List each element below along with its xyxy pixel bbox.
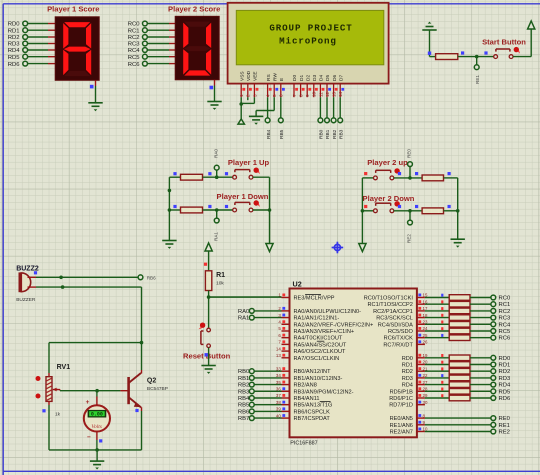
svg-text:RD3: RD3 [402,376,413,382]
svg-text:RC4: RC4 [128,48,141,54]
svg-text:RE2/AN7: RE2/AN7 [390,430,413,436]
svg-text:RC0/T1OSO/T1CKI: RC0/T1OSO/T1CKI [364,296,414,302]
svg-text:RD0: RD0 [499,356,512,362]
svg-text:RD5: RD5 [8,55,21,61]
svg-text:Player 2 up: Player 2 up [367,158,408,167]
svg-text:RD5/P1B: RD5/P1B [390,389,414,395]
svg-text:RE1: RE1 [475,75,480,84]
svg-text:Volts: Volts [91,424,101,430]
svg-text:BC547BP: BC547BP [147,386,168,392]
svg-text:RC3: RC3 [128,42,141,48]
svg-text:RD6: RD6 [499,396,512,402]
svg-text:RE0: RE0 [499,416,511,422]
svg-text:RA6/OSC2/CLKOUT: RA6/OSC2/CLKOUT [294,349,346,355]
svg-text:RB0: RB0 [238,369,250,375]
svg-text:RE0: RE0 [407,149,412,158]
svg-text:RC1/T1OSI/CCP2: RC1/T1OSI/CCP2 [368,302,413,308]
svg-text:D6: D6 [332,75,338,81]
svg-text:RB7/ICSPDAT: RB7/ICSPDAT [294,416,331,422]
svg-text:RC2: RC2 [499,309,511,315]
svg-text:RB6: RB6 [238,409,250,415]
svg-text:RA0/AN0/ULPWU/C12IN0-: RA0/AN0/ULPWU/C12IN0- [294,309,362,315]
svg-text:RC4: RC4 [499,322,512,328]
svg-text:RC6/TX/CK: RC6/TX/CK [384,336,413,342]
svg-text:2: 2 [246,94,251,97]
svg-text:14: 14 [338,91,343,97]
svg-text:Q2: Q2 [147,378,156,385]
svg-text:Start Button: Start Button [482,38,526,47]
svg-text:RB4: RB4 [238,396,250,402]
svg-text:RA0: RA0 [238,309,250,315]
svg-text:VSS: VSS [239,71,245,81]
svg-text:RB4/AN11: RB4/AN11 [294,396,320,402]
svg-text:RD4: RD4 [402,383,413,389]
svg-text:RE1: RE1 [499,423,510,429]
svg-text:D3: D3 [312,75,318,81]
svg-text:RD4: RD4 [499,383,512,389]
svg-text:RB0/AN12/INT: RB0/AN12/INT [294,369,332,375]
svg-text:RC6: RC6 [128,62,141,68]
svg-text:RD1: RD1 [402,363,413,369]
svg-text:RB6: RB6 [147,276,156,281]
svg-text:RD2: RD2 [402,369,413,375]
svg-text:RB2: RB2 [332,129,338,139]
svg-text:RC6: RC6 [499,336,512,342]
svg-text:RC0: RC0 [128,22,141,28]
svg-text:R1: R1 [216,272,225,279]
svg-text:RB5: RB5 [279,129,285,139]
svg-text:RA2/AN2/VREF-/CVREF/C2IN+: RA2/AN2/VREF-/CVREF/C2IN+ [294,322,374,328]
svg-text:D4: D4 [319,75,325,81]
svg-text:RE0/AN5: RE0/AN5 [390,416,413,422]
svg-text:VEE: VEE [253,71,259,81]
svg-text:RC3: RC3 [499,316,512,322]
svg-text:RB3/AN9/PGM/C12IN2-: RB3/AN9/PGM/C12IN2- [294,389,354,395]
svg-text:RC7/RX/DT: RC7/RX/DT [383,342,413,348]
svg-text:+: + [86,399,90,406]
svg-text:RD3: RD3 [8,42,21,48]
svg-text:RB7: RB7 [238,416,249,422]
svg-text:RC1: RC1 [128,28,140,34]
svg-text:RB4: RB4 [266,129,272,139]
svg-text:D7: D7 [338,75,344,81]
svg-text:RB0: RB0 [319,129,325,139]
svg-text:RC3/SCK/SCL: RC3/SCK/SCL [376,316,413,322]
svg-text:RB5: RB5 [238,403,250,409]
svg-text:10: 10 [312,91,317,97]
svg-text:RA1: RA1 [213,232,218,241]
svg-text:RC5: RC5 [128,55,141,61]
svg-text:RB3: RB3 [338,129,344,139]
svg-text:D0: D0 [292,75,298,81]
svg-text:13: 13 [276,353,281,358]
svg-text:Player 1 Up: Player 1 Up [228,158,270,167]
svg-text:26: 26 [423,340,428,345]
svg-text:Player 1 Down: Player 1 Down [217,192,269,201]
svg-text:Player 1 Score: Player 1 Score [47,5,99,14]
svg-text:RC1: RC1 [499,302,511,308]
svg-text:RD2: RD2 [499,369,511,375]
svg-text:RC2/P1A/CCP1: RC2/P1A/CCP1 [373,309,413,315]
svg-text:RD6: RD6 [8,62,21,68]
svg-text:RW: RW [272,73,278,81]
svg-text:RS: RS [266,74,272,81]
svg-text:RC5/SDO: RC5/SDO [388,329,414,335]
svg-text:5: 5 [272,94,277,97]
svg-text:RC0: RC0 [499,296,512,302]
svg-text:1: 1 [239,94,244,97]
svg-text:RD5: RD5 [499,389,512,395]
svg-text:GROUP PROJECT: GROUP PROJECT [269,23,352,34]
svg-text:E: E [279,78,285,81]
svg-text:RV1: RV1 [57,364,71,371]
svg-text:RA1/AN1/C12IN1-: RA1/AN1/C12IN1- [294,316,340,322]
svg-text:RD0: RD0 [402,356,413,362]
svg-text:RB1/AN10/C12IN3-: RB1/AN10/C12IN3- [294,376,343,382]
svg-text:RB1: RB1 [325,129,331,139]
svg-text:RA5/AN4/SS/C2OUT: RA5/AN4/SS/C2OUT [294,342,347,348]
svg-text:RA0: RA0 [213,149,218,158]
svg-text:D5: D5 [325,75,331,81]
svg-text:RB2/AN8: RB2/AN8 [294,383,317,389]
svg-text:RD2: RD2 [8,35,20,41]
svg-text:14: 14 [276,346,281,351]
svg-text:RA7/OSC1/CLKIN: RA7/OSC1/CLKIN [294,356,340,362]
svg-text:RC4/SDI/SDA: RC4/SDI/SDA [378,322,413,328]
svg-text:RE3/MCLR/VPP: RE3/MCLR/VPP [294,296,335,302]
svg-text:VDD: VDD [246,70,252,81]
svg-text:RC5: RC5 [499,329,512,335]
svg-text:D2: D2 [305,75,311,81]
svg-text:10k: 10k [216,281,224,287]
svg-text:9: 9 [305,94,310,97]
svg-text:RB1: RB1 [238,376,249,382]
svg-text:MicroPong: MicroPong [279,36,337,47]
svg-text:RA3/AN3/VREF+/C1IN+: RA3/AN3/VREF+/C1IN+ [294,329,355,335]
svg-text:RB6/ICSPCLK: RB6/ICSPCLK [294,409,331,415]
svg-text:3: 3 [252,94,257,97]
svg-text:8: 8 [299,94,304,97]
svg-text:Player 2 Down: Player 2 Down [363,194,415,203]
svg-text:RE1/AN6: RE1/AN6 [390,423,413,429]
svg-text:RA1: RA1 [238,316,249,322]
svg-text:PIC16F887: PIC16F887 [290,441,317,447]
svg-text:BUZZER: BUZZER [16,297,36,303]
svg-text:12: 12 [325,91,330,97]
svg-text:RE2: RE2 [407,234,412,243]
svg-text:U2: U2 [293,280,302,289]
svg-text:RD1: RD1 [8,28,20,34]
svg-text:RD0: RD0 [8,22,21,28]
svg-text:1k: 1k [55,412,61,418]
svg-text:RB3: RB3 [238,389,250,395]
svg-text:RB5/AN13/T1G: RB5/AN13/T1G [294,403,333,409]
svg-text:7: 7 [292,94,297,97]
svg-text:RD6/P1C: RD6/P1C [389,396,413,402]
svg-text:11: 11 [318,92,323,97]
svg-text:RB2: RB2 [238,383,249,389]
svg-text:RD3: RD3 [499,376,512,382]
svg-text:13: 13 [332,91,337,97]
svg-text:RD1: RD1 [499,363,511,369]
svg-text:Player 2 Score: Player 2 Score [168,5,220,14]
svg-text:30: 30 [423,400,428,405]
svg-text:RD4: RD4 [8,48,21,54]
svg-text:RE2: RE2 [499,430,510,436]
svg-text:RD7/P1D: RD7/P1D [389,403,413,409]
svg-text:6: 6 [279,94,284,97]
svg-text:−: − [87,434,91,441]
svg-text:RC2: RC2 [128,35,140,41]
svg-text:0.00: 0.00 [91,412,103,418]
svg-text:4: 4 [266,94,271,97]
svg-text:D1: D1 [299,75,305,81]
